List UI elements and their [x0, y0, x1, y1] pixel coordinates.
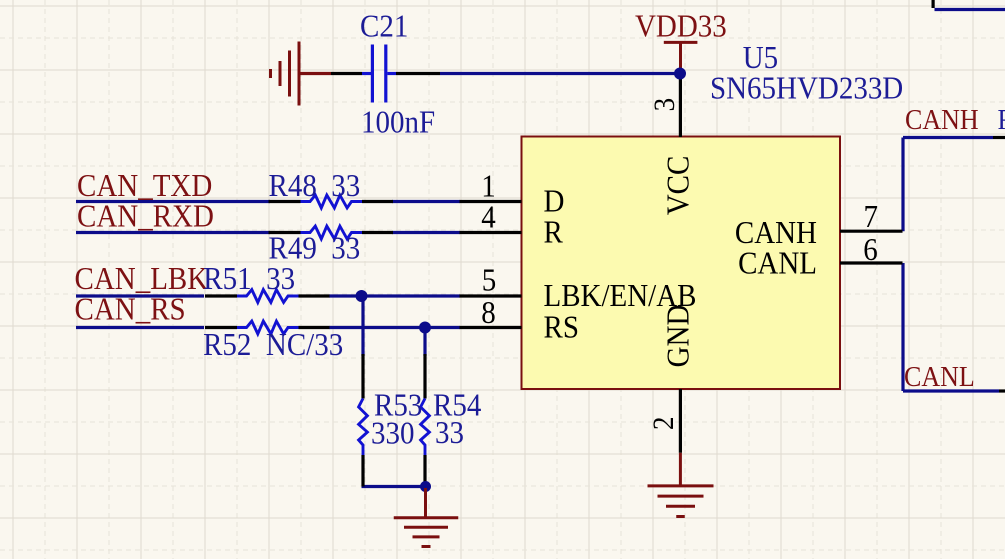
svg-text:CANL: CANL — [904, 361, 975, 392]
svg-text:R: R — [544, 214, 564, 250]
svg-text:R52 NC/33: R52 NC/33 — [203, 327, 343, 363]
svg-text:CAN_RXD: CAN_RXD — [77, 198, 214, 234]
svg-text:330: 330 — [371, 415, 414, 451]
svg-text:33: 33 — [435, 415, 464, 451]
svg-text:VDD33: VDD33 — [635, 8, 727, 44]
svg-text:2: 2 — [648, 416, 680, 429]
svg-text:CANH: CANH — [905, 104, 979, 135]
svg-text:RS: RS — [544, 309, 579, 345]
svg-text:CAN_RS: CAN_RS — [75, 291, 186, 327]
svg-text:R48 33: R48 33 — [269, 168, 361, 204]
svg-text:CANL: CANL — [738, 245, 817, 281]
svg-text:3: 3 — [649, 98, 681, 111]
svg-text:7: 7 — [864, 199, 878, 235]
svg-text:5: 5 — [482, 262, 496, 298]
svg-text:6: 6 — [863, 232, 877, 268]
svg-text:C21: C21 — [360, 8, 408, 44]
svg-text:VCC: VCC — [660, 156, 696, 216]
svg-text:4: 4 — [481, 199, 495, 235]
svg-text:R51 33: R51 33 — [203, 261, 295, 297]
svg-text:100nF: 100nF — [361, 104, 435, 140]
svg-text:R: R — [998, 104, 1005, 135]
svg-text:SN65HVD233D: SN65HVD233D — [710, 70, 903, 106]
svg-text:GND: GND — [660, 305, 696, 368]
svg-text:8: 8 — [481, 295, 495, 331]
